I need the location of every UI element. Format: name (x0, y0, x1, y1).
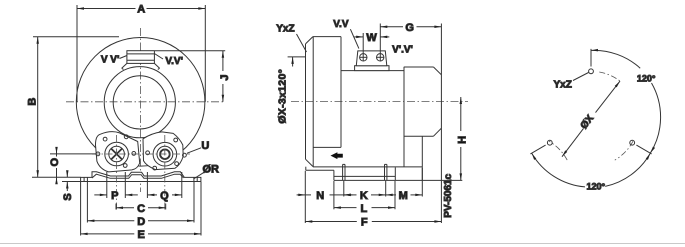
terminal box (355, 51, 389, 71)
bolt hole left (547, 140, 552, 145)
svg-text:A: A (137, 4, 145, 16)
svg-text:S: S (62, 193, 74, 200)
dimension W (354, 33, 389, 61)
left pad vertical centerline (116, 135, 118, 210)
svg-text:O: O (49, 157, 61, 166)
svg-text:YxZ: YxZ (276, 24, 294, 35)
dimension P (94, 172, 138, 198)
svg-text:ØX: ØX (579, 113, 597, 131)
right pad (outlet flange pad) (143, 132, 186, 170)
cover circle (104, 67, 175, 138)
dimension K (344, 181, 386, 197)
dimension H (460, 97, 462, 180)
svg-text:120°: 120° (637, 73, 656, 83)
label V V' (left) (120, 56, 127, 59)
inlet flange plate (306, 37, 314, 167)
svg-text:PV-5061c: PV-5061c (443, 173, 454, 217)
svg-text:P: P (111, 190, 118, 202)
svg-text:M: M (399, 190, 408, 202)
svg-text:U: U (201, 140, 209, 152)
pitch circle dash arcs (549, 72, 633, 160)
svg-text:H: H (456, 136, 468, 144)
silencer front section (313, 37, 341, 148)
svg-text:V.V: V.V (333, 19, 349, 30)
dimension M (386, 168, 423, 197)
dimension arc 120 bottom (532, 153, 651, 187)
rotation arrow (331, 152, 343, 159)
dimension F (305, 221, 441, 223)
motor (404, 67, 441, 167)
svg-text:B: B (26, 98, 38, 106)
label YxZ (side) (297, 34, 307, 52)
centerline horizontal (side view axis) (291, 101, 468, 103)
diameter line ØX (562, 81, 620, 157)
dimension C (116, 204, 166, 210)
svg-text:ØX-3x120°: ØX-3x120° (277, 69, 289, 124)
svg-text:Q: Q (160, 190, 169, 202)
dimension E (81, 182, 201, 236)
svg-text:G: G (405, 22, 414, 34)
bore circle (113, 76, 166, 129)
bolt hole top (589, 69, 594, 74)
svg-text:ØR: ØR (202, 164, 219, 176)
svg-text:W: W (366, 32, 377, 44)
left port with X (109, 146, 125, 162)
housing outer circle (76, 38, 205, 167)
svg-text:D: D (137, 216, 145, 228)
bottom hairline rule (0, 243, 685, 245)
label ØR (194, 172, 205, 179)
dimension arc 120 top right (591, 50, 661, 153)
motor bracket (421, 136, 423, 180)
body bottom (313, 166, 422, 168)
dimension ØX-3x120° (288, 57, 306, 67)
right pad vertical centerline (164, 135, 166, 210)
dimension A (77, 5, 205, 102)
centerline vertical (housing axis) (140, 28, 142, 192)
top port (threaded connector) (122, 51, 160, 70)
label YxZ (bolt circle) (573, 73, 589, 81)
dimension D (87, 182, 194, 223)
left port boss (105, 142, 129, 166)
svg-text:J: J (219, 74, 231, 80)
base slots (343, 164, 387, 180)
dimension J (155, 51, 225, 102)
dimension Q (147, 172, 181, 198)
dimension O (50, 147, 96, 183)
hole extension lines (590, 49, 592, 67)
svg-text:F: F (361, 217, 368, 229)
right port boss (153, 142, 177, 166)
svg-text:V V': V V' (101, 54, 120, 65)
label V.V' (right) (154, 54, 163, 60)
base profile (81, 172, 201, 182)
bolt hole right (630, 140, 635, 145)
dimension B (32, 37, 119, 178)
svg-text:V.V': V.V' (165, 56, 183, 67)
svg-text:YxZ: YxZ (554, 79, 572, 90)
dimension S (62, 171, 81, 191)
label U (187, 148, 201, 153)
flange foot (306, 167, 334, 171)
left pad (inlet flange pad) (95, 132, 139, 172)
right port circles (157, 146, 173, 162)
dimension N (297, 171, 353, 223)
svg-text:K: K (360, 190, 368, 202)
svg-text:N: N (316, 190, 324, 202)
svg-text:E: E (138, 229, 145, 241)
svg-text:V'.V': V'.V' (392, 45, 413, 56)
svg-text:120°: 120° (586, 181, 605, 191)
centerline horizontal (housing axis) (66, 101, 226, 103)
base block (side) (334, 167, 462, 180)
svg-text:L: L (361, 203, 368, 215)
pad horizontal centerline (92, 153, 190, 155)
label V.V (350, 29, 359, 48)
dimension L (334, 181, 395, 209)
dimension G (380, 24, 441, 224)
body top (341, 70, 404, 72)
svg-text:C: C (137, 203, 145, 215)
